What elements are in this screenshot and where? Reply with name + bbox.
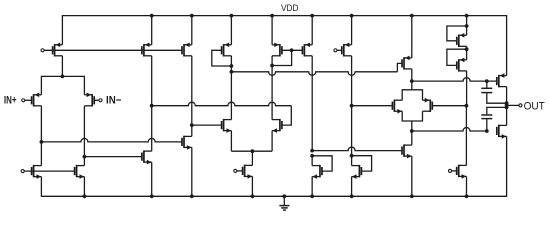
transistor M12 NMOS bbox=[272, 119, 282, 133]
wire TG top connection bbox=[402, 81, 422, 100]
junction M14 gate-drain bbox=[270, 64, 274, 68]
transistor M22 class-AB NMOS bbox=[392, 100, 402, 114]
transistor M4 NMOS load bbox=[32, 165, 42, 179]
terminal NMOS bias 2 bbox=[234, 169, 237, 172]
transistor M15 PMOS bbox=[302, 43, 312, 57]
transistor M7 PMOS bbox=[182, 43, 192, 57]
junction pair2 tail bbox=[251, 149, 255, 153]
wire IN- gate stub bbox=[94, 99, 99, 101]
wire C1 bottom to OUT bbox=[487, 93, 507, 103]
junction M5 source rail bbox=[83, 194, 87, 198]
wire M9 source bbox=[191, 147, 193, 196]
wire IN+ gate stub bbox=[25, 99, 32, 101]
wire M12 gate link bbox=[282, 106, 291, 125]
wire to M18 drain bbox=[311, 156, 313, 166]
junction M25 gate tap bbox=[465, 24, 469, 28]
transistor M14 PMOS diode bbox=[272, 43, 282, 57]
transistor M13 tail NMOS bbox=[243, 165, 253, 179]
wire M20 source bbox=[411, 156, 413, 196]
wire M8 source bbox=[151, 162, 153, 196]
junction C2 to M24 gate line bbox=[485, 129, 489, 133]
transistor M6 PMOS bbox=[142, 43, 152, 57]
wire node J to M27 drain bbox=[465, 106, 467, 166]
capacitor C1 bbox=[481, 88, 492, 92]
junction mirror gate bbox=[290, 48, 294, 52]
wire node C to M8 drain bbox=[151, 106, 153, 151]
wire M13 gate stub bbox=[237, 170, 243, 172]
wire node D to M9 drain bbox=[191, 125, 193, 136]
wire M14 drain to M12 drain bbox=[271, 66, 273, 120]
wire rail to M6 source bbox=[151, 16, 153, 45]
wire M11 source bbox=[230, 131, 232, 152]
wire T1 drain to tail node bbox=[61, 56, 63, 77]
node D bbox=[190, 123, 194, 127]
node C bbox=[150, 104, 154, 108]
transistor M27 NMOS bbox=[457, 165, 467, 179]
wire M26 diode link bbox=[447, 49, 467, 65]
transistor M9 NMOS bbox=[182, 136, 192, 150]
junction M19 source rail bbox=[350, 194, 354, 198]
wire rail to M14 source bbox=[271, 16, 273, 45]
wire NMOS bias line bbox=[24, 170, 74, 172]
wire M14-M15 gates bbox=[282, 49, 302, 51]
transistor M19 NMOS diode bbox=[352, 165, 362, 179]
junction C2-OUT bbox=[505, 106, 509, 110]
junction M13 source rail bbox=[251, 194, 255, 198]
node E bias bbox=[230, 70, 234, 74]
junction M6 rail bbox=[150, 14, 154, 18]
svg-text:IN−: IN− bbox=[106, 95, 121, 107]
wire M16 gate stub bbox=[337, 49, 342, 51]
node J bias chain bbox=[465, 104, 469, 108]
terminal NMOS bias 3 bbox=[448, 169, 451, 172]
wire rail to M17 source bbox=[411, 16, 413, 58]
wire M15 drain down bbox=[311, 56, 313, 151]
wire M12 source bbox=[271, 131, 273, 152]
transistor M5 NMOS load bbox=[75, 165, 85, 179]
wire M16 drain down bbox=[351, 56, 353, 106]
wire rail to M16 source bbox=[351, 16, 353, 45]
wire C2 bottom plate bbox=[486, 119, 488, 131]
wire M9 gate from node A bbox=[41, 138, 182, 141]
junction M14 rail bbox=[270, 14, 274, 18]
junction M26 gate tap bbox=[465, 47, 469, 51]
junction M18 gate tap bbox=[310, 154, 314, 158]
junction M27 source rail bbox=[465, 194, 469, 198]
label OUT bbox=[524, 100, 546, 112]
wire M5 source bbox=[83, 177, 85, 197]
terminal NMOS bias 1 bbox=[21, 170, 24, 173]
label IN+ bbox=[4, 95, 17, 107]
transistor M8 NMOS bbox=[142, 150, 152, 164]
junction OUT bbox=[505, 104, 509, 108]
wire M5 drain bbox=[83, 157, 85, 166]
terminal IN+ bbox=[22, 99, 25, 102]
wire M25 drain bbox=[466, 46, 468, 60]
wire M22 gate from node G bbox=[352, 105, 393, 107]
wire OUT stub bbox=[507, 104, 519, 106]
transistor M16 PMOS bbox=[342, 43, 352, 57]
label IN- bbox=[106, 95, 121, 107]
wire node G to M19 drain bbox=[351, 106, 353, 166]
svg-text:IN+: IN+ bbox=[4, 95, 17, 107]
wire rail to M10 source bbox=[230, 16, 232, 45]
node H (M21 gate drive) bbox=[410, 79, 414, 83]
transistor M2 input PMOS IN- bbox=[84, 93, 94, 107]
wire node C to M12 gate bbox=[152, 102, 292, 105]
transistor M1 input PMOS IN+ bbox=[32, 93, 42, 107]
junction M25 rail bbox=[465, 14, 469, 18]
wire M1 drain bbox=[40, 106, 42, 142]
wire M10 diode link bbox=[212, 50, 232, 66]
wire M14 drain bbox=[271, 56, 273, 66]
junction M8 source rail bbox=[150, 194, 154, 198]
transistor M23 class-AB PMOS bbox=[423, 98, 433, 112]
terminal IN- bbox=[99, 99, 102, 102]
terminal PMOS bias 2 bbox=[334, 49, 337, 52]
wire rail to M7 source bbox=[191, 16, 193, 45]
junction M7 rail bbox=[190, 14, 194, 18]
wire M27 gate stub bbox=[452, 170, 457, 172]
wire M25 diode link bbox=[447, 26, 467, 41]
wire node F to M20 gate bbox=[312, 147, 402, 150]
node F (M18 diode) bbox=[310, 149, 314, 153]
transistor M21 output PMOS bbox=[497, 73, 507, 87]
wire M13 drain bbox=[251, 151, 253, 165]
wire VDD rail bbox=[62, 16, 506, 76]
node I (M24 gate drive) bbox=[410, 129, 414, 133]
wire node I to M24 gate bbox=[412, 128, 487, 131]
terminal PMOS bias bbox=[41, 49, 44, 52]
transistor M10 PMOS diode bbox=[222, 43, 232, 57]
node G bbox=[350, 104, 354, 108]
junction M10 rail bbox=[230, 14, 234, 18]
wire bias line to M17 gate bbox=[231, 72, 397, 76]
node A (M1 drain) bbox=[40, 140, 44, 144]
wire bias jog up to M17 gate bbox=[397, 63, 402, 71]
transistor M25 PMOS diode bbox=[457, 33, 467, 47]
ground bbox=[279, 196, 289, 210]
junction C1-OUT bbox=[505, 101, 509, 105]
wire C2 top to OUT bbox=[487, 107, 507, 114]
VDD label bbox=[281, 3, 299, 13]
junction M15 rail bbox=[310, 14, 314, 18]
wire node H to M21 gate bbox=[412, 78, 497, 82]
wire TG bottom connection bbox=[402, 111, 422, 131]
wire M4 drain bbox=[40, 142, 42, 166]
wire rail to M25 bbox=[466, 16, 468, 36]
junction M18 source rail bbox=[310, 194, 314, 198]
wire ground rail bbox=[41, 136, 506, 196]
junction M10 gate-drain bbox=[230, 64, 234, 68]
wire M10 drain down bbox=[230, 56, 232, 120]
wire M23 gate to bias chain bbox=[432, 105, 466, 107]
wire M18 source bbox=[311, 177, 313, 197]
wire M19 source bbox=[351, 177, 353, 197]
node B (M2 drain) bbox=[83, 155, 87, 159]
wire M14 diode link bbox=[272, 50, 292, 65]
wire M21 drain bbox=[506, 87, 508, 104]
transistor M17 PMOS bbox=[402, 56, 412, 70]
svg-text:VDD: VDD bbox=[281, 3, 299, 13]
wire input pair common sources bbox=[41, 76, 84, 94]
junction M20 source rail bbox=[410, 194, 414, 198]
svg-text:OUT: OUT bbox=[524, 100, 546, 112]
wire PMOS bias line bbox=[44, 49, 182, 51]
wire output junction bbox=[506, 103, 508, 107]
wire node I to M20 drain bbox=[411, 131, 413, 145]
wire M24 drain bbox=[506, 107, 508, 125]
transistor M3 tail PMOS bbox=[53, 43, 63, 57]
capacitor C2 bbox=[481, 115, 492, 119]
transistor M24 output NMOS bbox=[497, 125, 507, 139]
wire M19 diode link bbox=[352, 156, 372, 171]
wire M18 diode link bbox=[312, 156, 332, 171]
terminal OUT bbox=[519, 104, 522, 107]
wire M2 drain bbox=[83, 106, 85, 157]
wire M11 gate from node D bbox=[192, 124, 222, 126]
junction M17 rail bbox=[410, 14, 414, 18]
transistor M11 NMOS bbox=[222, 119, 232, 133]
transistor M20 NMOS bbox=[402, 144, 412, 158]
junction M19 gate tap bbox=[350, 154, 354, 158]
junction tail node bbox=[61, 75, 65, 79]
wire M27 source bbox=[466, 176, 468, 196]
junction M9 source rail bbox=[190, 194, 194, 198]
wire M6 drain bbox=[151, 56, 153, 106]
wire M17 drain bbox=[411, 69, 413, 81]
wire M26 drain down bbox=[466, 71, 468, 106]
wire M7 drain bbox=[191, 56, 193, 125]
transistor M26 PMOS diode bbox=[457, 58, 467, 72]
wire rail to M15 source bbox=[311, 16, 313, 45]
wire pair2 tail bbox=[231, 150, 272, 152]
junction ground-rail bbox=[282, 194, 286, 198]
junction cap1 top bbox=[485, 79, 489, 83]
wire M13 source bbox=[251, 176, 253, 196]
wire M8 gate from node B bbox=[84, 156, 141, 158]
wire C1 top plate bbox=[486, 81, 488, 88]
junction M16 rail bbox=[350, 14, 354, 18]
transistor M18 NMOS diode bbox=[312, 165, 322, 179]
